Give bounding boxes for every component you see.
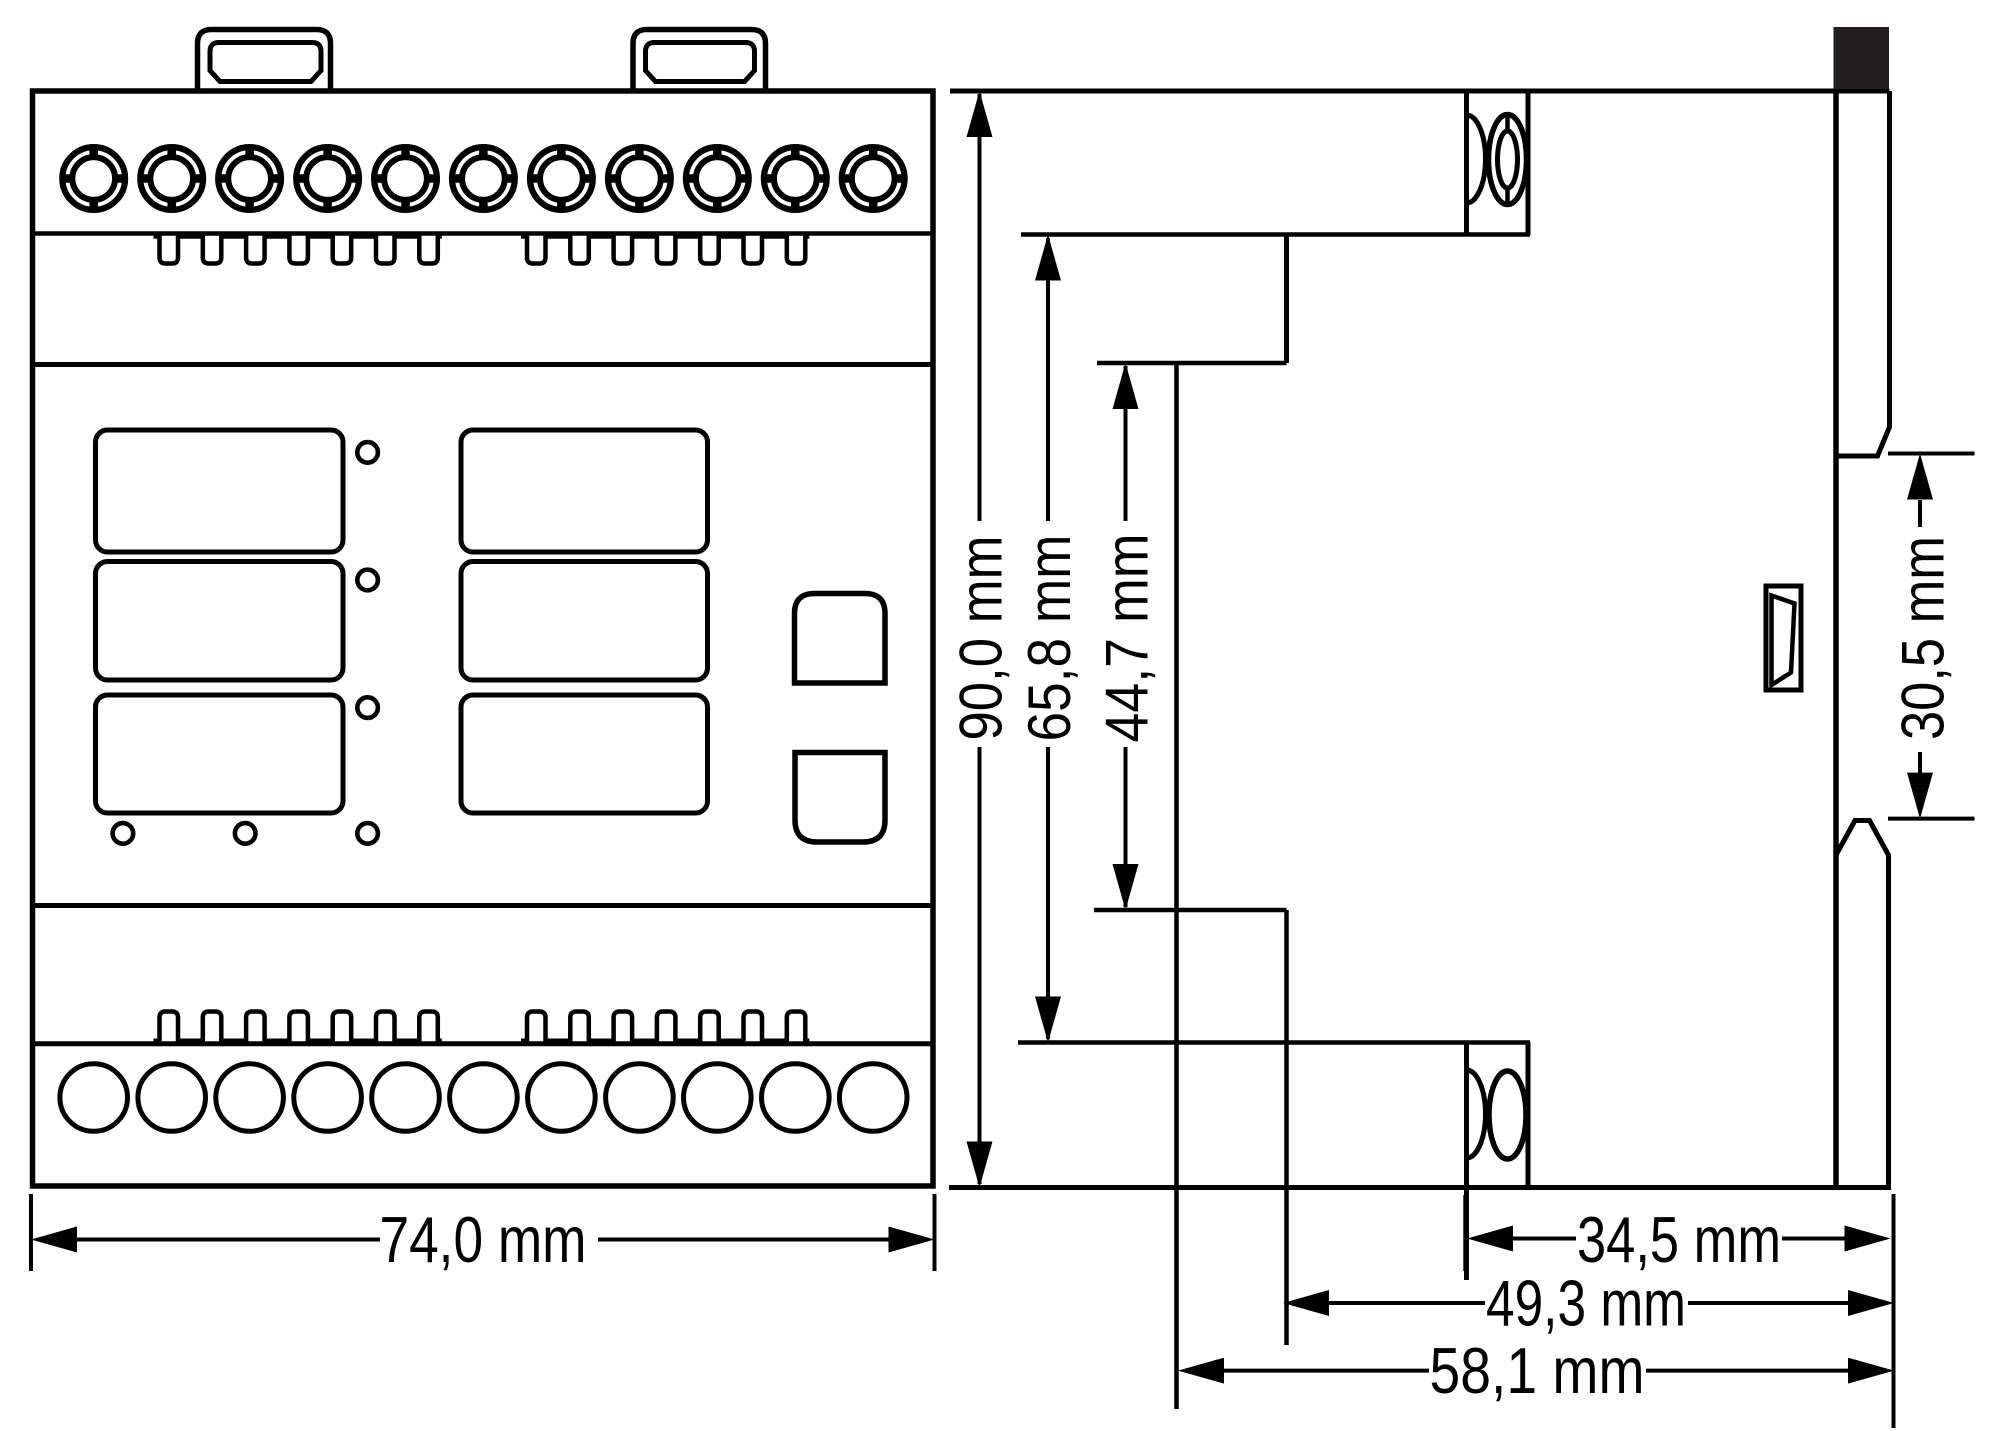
indicator LED 5 [235,823,256,844]
button B2 (down, rounded bottom) [795,753,885,843]
dimension 34,5 mm line [1513,1237,1576,1241]
indicator LED 2 [357,570,378,591]
terminal hole H1 (bottom) [60,1064,128,1132]
terminal screw S6 (top) [452,147,515,210]
terminal hole H2 (bottom) [138,1064,206,1132]
upper separator line [33,231,934,236]
lower ventilation comb group B [521,1012,809,1041]
dimension 90,0 mm line [978,94,982,521]
terminal hole H4 (bottom) [294,1064,362,1132]
svg-text:65,8 mm: 65,8 mm [1016,535,1083,742]
svg-text:44,7 mm: 44,7 mm [1094,534,1161,743]
terminal hole H8 (bottom) [606,1064,674,1132]
svg-text:90,0 mm: 90,0 mm [948,536,1015,741]
step edge at bottom terminal level [1018,1040,1530,1045]
step edge at 65.8 level [1021,232,1530,237]
indicator LED 1 [357,442,378,463]
lower separator line [33,1041,934,1046]
terminal screw S4 (top) [296,147,359,210]
svg-text:58,1 mm: 58,1 mm [1430,1334,1645,1407]
display window R1 [461,430,708,552]
dimension 34,5 mm extension line [1463,1195,1467,1271]
terminal hole H3 (bottom) [216,1064,284,1132]
dimension 74,0 mm extension lines [29,1194,33,1271]
dimension right extension line [1892,1194,1896,1428]
dimension 30,5 mm reference ticks [1888,452,1975,456]
DIN-rail release tab (black) [1834,27,1890,89]
lower rail flange with latch peak [1836,821,1889,1189]
dimension 44,7 mm line [1124,366,1128,521]
indicator LED 6 [357,823,378,844]
side wire hole ellipse (bottom) [1489,1071,1526,1159]
lower middle face [1284,910,1289,1345]
display window L3 [96,695,344,813]
side view bottom edge [949,1185,1891,1190]
button B1 (up, rounded top) [795,594,886,684]
side wire hole ellipse (bottom, partial) [1467,1070,1486,1158]
top terminal block left edge [1464,91,1469,235]
front face edge [1174,363,1179,1409]
terminal screw S10 (top) [764,147,827,210]
third separator line [33,903,934,908]
terminal hole H9 (bottom) [684,1064,752,1132]
display window R3 [461,695,708,813]
dimension 30,5 mm line [1918,500,1922,527]
svg-text:74,0 mm: 74,0 mm [380,1203,587,1276]
terminal hole H11 (bottom) [839,1064,907,1132]
lower ventilation comb group A [154,1012,442,1041]
side screw head ellipse (top) [1489,112,1527,207]
dimension 49,3 mm line [1329,1301,1485,1305]
upper middle face [1284,235,1289,364]
lower step edge [1094,908,1287,913]
terminal screw S8 (top) [608,147,671,210]
terminal hole H5 (bottom) [372,1064,440,1132]
side view top edge [950,89,1890,94]
terminal screw S3 (top) [218,147,281,210]
terminal hole H10 (bottom) [762,1064,830,1132]
step edge at 44.7 level [1097,361,1287,366]
terminal hole H6 (bottom) [450,1064,518,1132]
mounting tab T1 (top left) [198,30,331,93]
svg-text:49,3 mm: 49,3 mm [1486,1267,1686,1340]
bottom terminal block right edge [1526,1043,1531,1189]
indicator LED 4 [113,823,134,844]
display window L1 [96,430,344,552]
dimension 58,1 mm line [1224,1369,1429,1373]
terminal hole H7 (bottom) [528,1064,596,1132]
dimension 74,0 mm line [77,1238,380,1242]
svg-text:34,5 mm: 34,5 mm [1577,1203,1781,1276]
display window R2 [461,562,708,681]
DIN-rail latch window [1766,586,1801,690]
terminal screw S9 (top) [686,147,749,210]
side screw funnel ellipse (top, partial) [1467,115,1486,203]
terminal screw S1 (top) [62,147,125,210]
mounting tab T2 (top right) [633,30,766,93]
terminal screw S11 (top) [842,147,905,210]
second separator line [33,362,934,367]
dimension 65,8 mm line [1046,238,1050,521]
terminal screw S7 (top) [530,147,593,210]
indicator LED 3 [357,697,378,718]
svg-text:30,5 mm: 30,5 mm [1890,536,1957,740]
side view back edge [1833,91,1839,1188]
display window L2 [96,562,344,681]
upper rail flange [1836,91,1890,456]
upper ventilation comb group A [154,237,442,264]
upper ventilation comb group B [521,237,809,264]
terminal screw S2 (top) [140,147,203,210]
top terminal block right edge [1526,91,1531,235]
terminal screw S5 (top) [374,147,437,210]
front view body outline [33,91,934,1186]
bottom terminal block left edge [1464,1043,1469,1281]
